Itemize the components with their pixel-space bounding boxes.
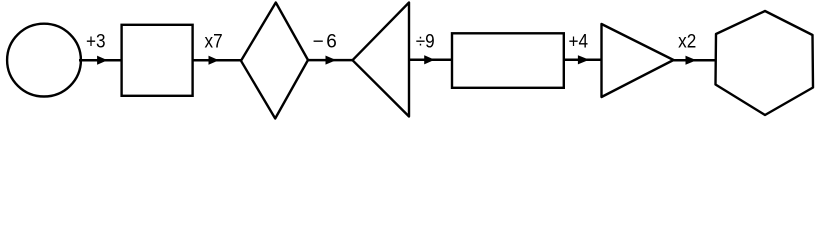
svg-text:x2: x2 [678, 29, 696, 51]
wire: left triangle to rectangle [409, 59, 452, 62]
wire: right triangle to hexagon [674, 59, 717, 62]
svg-text:+3: +3 [86, 29, 106, 51]
arrowhead 2 [209, 56, 218, 64]
arrowhead 4 [425, 56, 434, 64]
rectangle [452, 33, 564, 88]
diamond [241, 3, 308, 119]
hexagon [716, 11, 814, 115]
svg-text:+4: +4 [569, 29, 589, 51]
circle (input shape) [7, 24, 81, 97]
wire: diamond to left triangle [308, 59, 353, 62]
arrowhead 3 [326, 56, 335, 64]
right-pointing triangle [602, 24, 674, 97]
left-pointing triangle [353, 3, 410, 117]
wire: circle to square [79, 59, 122, 62]
arrowhead 5 [578, 56, 588, 64]
svg-text:÷9: ÷9 [416, 29, 435, 51]
svg-text:−6: −6 [313, 32, 340, 53]
square [122, 25, 193, 96]
wire: square to diamond [193, 59, 241, 62]
wire: rectangle to right triangle [564, 59, 602, 62]
arrowhead 6 [686, 56, 695, 64]
arrowhead 1 [98, 56, 107, 64]
svg-text:x7: x7 [205, 29, 223, 51]
